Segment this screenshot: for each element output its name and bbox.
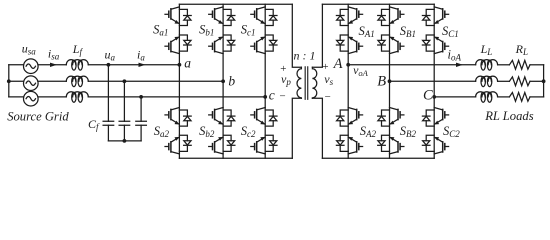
inductor Lf phase 1 — [66, 60, 88, 71]
transistor S_c2 lower IGBT — [251, 135, 277, 154]
wire stub to source 3 — [9, 96, 24, 98]
inductor Lf phase 3 — [66, 92, 88, 103]
wire bridge1 bottom bus — [179, 157, 292, 159]
transistor S_A2 upper IGBT — [336, 108, 362, 127]
wire coil to resistor 3 — [498, 96, 510, 98]
node cap bus junction — [123, 139, 127, 143]
wire a filter to bridge — [88, 64, 179, 66]
wire source 1 to inductor — [38, 64, 66, 66]
wire bridge1 out bottom — [292, 98, 301, 158]
node a — [178, 63, 182, 67]
wire C to load — [434, 96, 475, 98]
wire c filter to bridge — [88, 96, 265, 98]
transistor S_c1 upper IGBT — [251, 7, 277, 26]
transistor S_a2 upper IGBT — [165, 108, 191, 127]
transistor S_A1 upper IGBT — [336, 7, 362, 26]
wire cap bottom 1 — [107, 125, 109, 141]
wire bridge2 in bottom — [312, 98, 322, 158]
inductor Lf phase 2 — [66, 76, 88, 87]
transistor S_C2 upper IGBT — [422, 108, 448, 127]
inductor L_L phase 1 — [476, 60, 498, 71]
resistor R_L phase 1 — [509, 60, 530, 69]
svg-text:−: − — [279, 91, 286, 103]
transistor S_a1 lower IGBT — [165, 35, 191, 54]
wire bridge2 leg 1 — [347, 4, 349, 158]
transistor S_C1 upper IGBT — [422, 7, 448, 26]
transistor S_C1 lower IGBT — [422, 35, 448, 54]
wire resistor to right bus 3 — [530, 96, 544, 98]
transistor S_a1 upper IGBT — [165, 7, 191, 26]
wire cap bottom 2 — [123, 125, 125, 141]
wire cap drop 3 — [140, 97, 142, 121]
svg-text:B: B — [377, 74, 386, 90]
wire bridge2 leg 3 — [433, 4, 435, 158]
node cap tap 3 — [139, 95, 143, 99]
svg-text:Source Grid: Source Grid — [7, 110, 69, 124]
wire cap drop 1 — [107, 65, 109, 122]
wire bridge2 in top — [312, 4, 322, 67]
transistor S_B1 lower IGBT — [378, 35, 404, 54]
transistor S_c1 lower IGBT — [251, 35, 277, 54]
transistor S_c2 upper IGBT — [251, 108, 277, 127]
node B — [388, 79, 392, 83]
transistor S_B2 lower IGBT — [378, 135, 404, 154]
svg-text:C: C — [423, 87, 433, 103]
capacitor Cf 2 — [119, 121, 130, 125]
wire left vertical bus of source — [8, 65, 10, 97]
wire bridge1 leg 3 — [264, 4, 266, 158]
wire bridge1 out top — [292, 4, 301, 67]
transistor S_B2 upper IGBT — [378, 108, 404, 127]
AC source V3 — [24, 91, 39, 106]
wire cap drop 2 — [123, 81, 125, 121]
transistor S_C2 lower IGBT — [422, 135, 448, 154]
wire bridge2 bottom bus — [322, 157, 434, 159]
resistor R_L phase 3 — [509, 93, 530, 102]
wire resistor to right bus 2 — [530, 80, 544, 82]
wire bridge1 leg 2 — [222, 4, 224, 158]
AC source V1 — [24, 59, 39, 74]
wire source 3 to inductor — [38, 96, 66, 98]
svg-text:−: − — [324, 91, 331, 103]
transformer core — [305, 67, 308, 99]
svg-text:A: A — [333, 56, 343, 72]
arrow i_oA — [456, 63, 463, 67]
node b — [221, 79, 225, 83]
wire bridge1 leg 1 — [178, 4, 180, 158]
wire stub to source 1 — [9, 64, 24, 66]
transistor S_b1 upper IGBT — [209, 7, 235, 26]
wire A to load — [348, 64, 475, 66]
wire source 2 to inductor — [38, 80, 66, 82]
wire bridge2 top bus — [322, 3, 434, 5]
node cap tap 2 — [123, 79, 127, 83]
capacitor Cf 1 — [103, 121, 114, 125]
wire coil to resistor 1 — [498, 64, 510, 66]
transistor S_B1 upper IGBT — [378, 7, 404, 26]
arrow i_sa — [50, 63, 57, 67]
arrow i_a — [139, 63, 146, 67]
wire right bus — [543, 65, 545, 97]
svg-text:RL Loads: RL Loads — [484, 109, 534, 123]
wire cap bottom 3 — [140, 125, 142, 141]
capacitor Cf 3 — [136, 121, 147, 125]
wire stub to source 2 — [9, 80, 24, 82]
transistor S_A2 lower IGBT — [336, 135, 362, 154]
node right bus junction — [542, 79, 546, 83]
node left bus junction — [7, 79, 11, 83]
transistor S_a2 lower IGBT — [165, 135, 191, 154]
wire resistor to right bus 1 — [530, 64, 544, 66]
node A — [346, 63, 350, 67]
transistor S_b2 upper IGBT — [209, 108, 235, 127]
wire coil to resistor 2 — [498, 80, 510, 82]
inductor L_L phase 2 — [476, 76, 498, 87]
wire bridge2 leg 2 — [389, 4, 391, 158]
node C — [432, 95, 436, 99]
inductor L_L phase 3 — [476, 92, 498, 103]
transistor S_b1 lower IGBT — [209, 35, 235, 54]
wire cap bottom bus — [108, 140, 141, 142]
wire bridge1 top bus — [179, 3, 292, 5]
wire b filter to bridge — [88, 80, 223, 82]
transistor S_A1 lower IGBT — [336, 35, 362, 54]
transistor S_b2 lower IGBT — [209, 135, 235, 154]
node cap tap 1 — [107, 63, 111, 67]
wire B to load — [390, 80, 476, 82]
svg-text:n : 1: n : 1 — [294, 48, 316, 62]
AC source V2 — [24, 76, 39, 91]
svg-text:a: a — [184, 55, 191, 70]
node c — [263, 95, 267, 99]
transformer primary winding — [297, 67, 301, 98]
transformer secondary winding — [312, 67, 316, 98]
resistor R_L phase 2 — [509, 77, 530, 86]
svg-text:b: b — [228, 73, 235, 88]
svg-text:c: c — [269, 87, 275, 102]
